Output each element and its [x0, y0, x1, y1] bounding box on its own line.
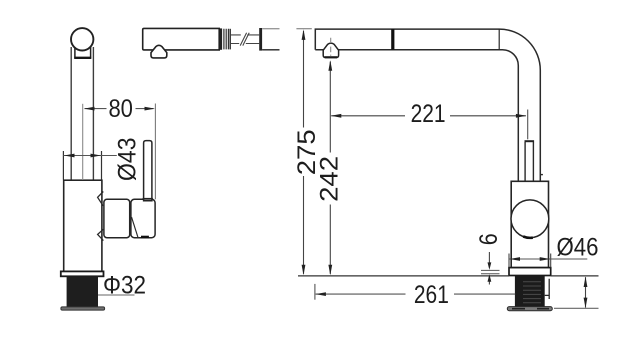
handle mount block: [104, 199, 130, 237]
connector top line: [262, 28, 279, 30]
svg-text:6: 6: [476, 233, 503, 245]
spout arm outline: [315, 29, 540, 181]
tube tick: [540, 174, 543, 176]
dim 80 line: [85, 108, 154, 110]
lever angled face: [132, 217, 139, 238]
dim right vertical line: [585, 277, 587, 307]
dim 6 extension lines: [481, 270, 500, 273]
cap circle: [71, 28, 93, 50]
arm-curve seam line: [498, 29, 500, 50]
dim 242 arrows: [328, 60, 332, 70]
svg-text:242: 242: [317, 156, 344, 202]
svg-text:80: 80: [108, 96, 133, 123]
dim 275 top extension: [296, 28, 311, 30]
lever dark tick: [141, 236, 149, 239]
hose lines: [231, 35, 259, 44]
dim 275 line: [303, 31, 305, 274]
arm divider bar: [391, 29, 394, 50]
dim 261 line: [316, 293, 516, 295]
dim 80 right extension: [154, 104, 156, 200]
outlet dome: [323, 43, 338, 57]
body (side view): [511, 181, 548, 267]
dim Ø46 extensions: [509, 254, 551, 268]
shank (side, black): [515, 276, 545, 308]
hose connector bar: [259, 28, 262, 51]
svg-text:Ø46: Ø46: [557, 235, 599, 262]
dim 80 left extension: [82, 104, 84, 180]
dim Φ32 leader: [98, 294, 135, 296]
rod cap: [525, 140, 535, 142]
spray head end cap bar: [219, 28, 222, 49]
bottom base (side): [507, 307, 552, 311]
svg-text:Φ32: Φ32: [103, 272, 146, 299]
hose break slashes: [240, 33, 249, 46]
dim 80 arrows: [84, 107, 95, 111]
counter line left: [298, 275, 509, 277]
bottom extension line right: [554, 307, 599, 309]
dim 221 arrows: [331, 114, 342, 118]
dim 221 right extension: [527, 110, 529, 140]
spout column left line: [70, 47, 72, 180]
spout column right line: [92, 47, 94, 180]
outlet centerline: [330, 38, 332, 56]
chevron top: [98, 192, 104, 206]
spray head body: [143, 28, 220, 50]
dim Ø43 extensions: [63, 151, 101, 180]
handle lever head: [131, 199, 155, 237]
cap holder bracket: [75, 44, 91, 58]
circle bottom dark arc: [523, 237, 533, 238]
outlet dome bottom thick edge: [325, 56, 338, 58]
counter line right: [551, 275, 599, 277]
dim Ø46 arrows: [510, 257, 521, 261]
ball circle: [511, 200, 549, 238]
svg-text:Ø43: Ø43: [114, 137, 141, 181]
base dark dashes: [512, 308, 549, 310]
shank thread marks: [523, 282, 541, 303]
dim Ø46 line: [509, 258, 587, 260]
dim Ø43 line: [63, 155, 116, 157]
dim 6 arrows: [488, 252, 490, 268]
dim 261 arrows: [315, 292, 326, 296]
dim 221 line: [331, 115, 526, 117]
connector bottom line: [262, 49, 279, 51]
dim 242 line: [329, 62, 331, 274]
svg-text:221: 221: [411, 101, 446, 128]
handle rod: [144, 141, 152, 201]
base plate (side): [509, 268, 551, 276]
base plate: [61, 307, 105, 310]
flange: [61, 271, 104, 276]
dim right vertical arrows: [584, 277, 588, 288]
shank (black): [67, 276, 98, 307]
svg-text:261: 261: [414, 282, 449, 309]
rod base tick: [143, 198, 153, 200]
dim 275 arrows: [302, 29, 306, 40]
rod in tube: [525, 142, 533, 205]
threads: [224, 29, 229, 50]
spray nozzle dome: [151, 45, 167, 58]
mounting clip line: [545, 279, 550, 299]
dim Ø43 arrows: [64, 154, 75, 158]
faucet body: [64, 180, 102, 271]
dim 261 left extension: [314, 284, 316, 300]
chevron bottom: [98, 229, 104, 240]
